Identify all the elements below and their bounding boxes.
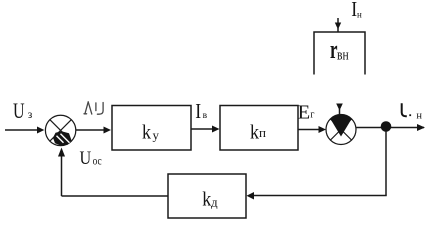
svg-text:вн: вн bbox=[337, 46, 349, 63]
svg-text:в: в bbox=[203, 111, 208, 121]
svg-text:г: г bbox=[310, 110, 314, 121]
svg-text:U: U bbox=[13, 100, 25, 124]
svg-text:п: п bbox=[259, 125, 266, 140]
svg-text:з: з bbox=[28, 109, 33, 121]
svg-text:н: н bbox=[416, 111, 422, 122]
svg-text:I: I bbox=[195, 101, 201, 124]
svg-text:ос: ос bbox=[93, 156, 102, 168]
svg-text:н: н bbox=[357, 10, 362, 20]
svg-text:д: д bbox=[211, 194, 218, 209]
svg-text:U: U bbox=[80, 147, 92, 169]
svg-text:у: у bbox=[153, 128, 160, 143]
svg-text:E: E bbox=[298, 102, 311, 124]
svg-text:k: k bbox=[142, 122, 151, 144]
